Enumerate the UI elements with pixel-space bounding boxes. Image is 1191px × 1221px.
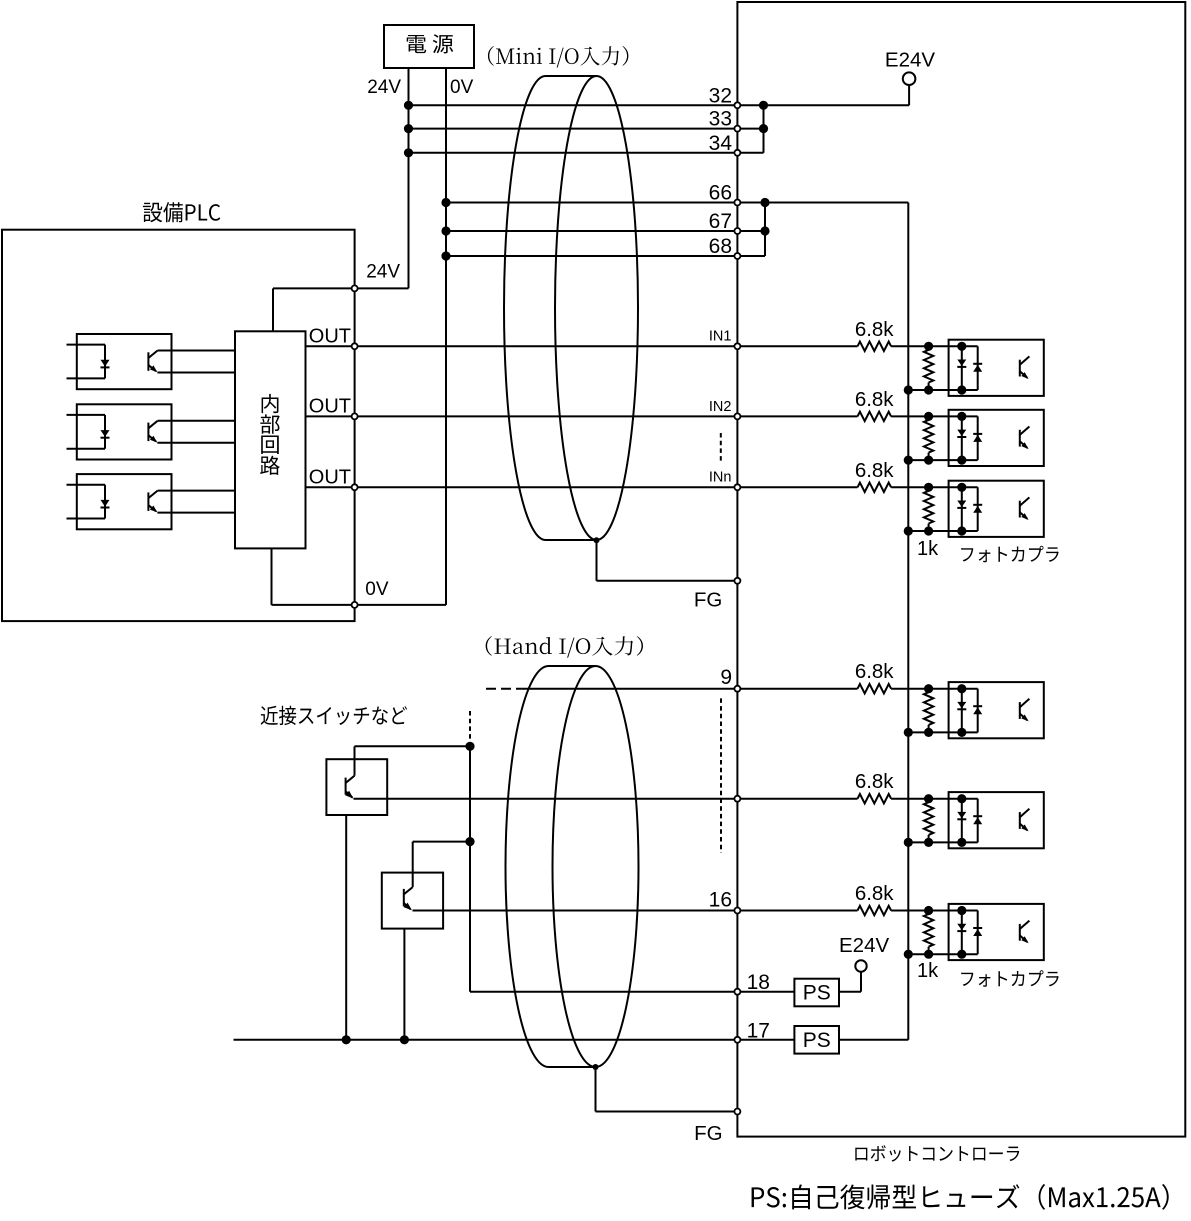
svg-text:16: 16	[709, 889, 732, 912]
photocoupler phototransistor	[1019, 430, 1021, 447]
photocoupler LED pair inner wiring	[962, 910, 978, 912]
Hand I/O cable bundle ellipse	[506, 666, 549, 1067]
junction dots on 0V lead	[441, 198, 450, 207]
wire tie bus pins 66-68	[764, 203, 766, 257]
PLC optocoupler 3 emitter wire	[157, 512, 235, 514]
PLC optocoupler 3 collector wire	[158, 490, 235, 492]
proximity sensor 1 box	[326, 759, 387, 815]
PLC optocoupler 3 transistor	[147, 492, 149, 511]
wire OUT2 row to controller IN	[306, 415, 858, 417]
svg-text:E24V: E24V	[839, 934, 889, 957]
proximity sensor 2 box	[382, 873, 443, 929]
photocoupler LED terminal dots	[957, 483, 966, 492]
wire PS1 to E24V terminal	[839, 991, 861, 993]
pins 9 sensor 16 on controller	[734, 686, 740, 692]
wire row 9	[522, 688, 858, 690]
photocoupler LED pair inner wiring	[962, 345, 978, 347]
svg-text:OUT: OUT	[309, 467, 351, 489]
pin 0V on PLC	[352, 602, 358, 608]
svg-text:6.8k: 6.8k	[855, 882, 894, 905]
svg-text:6.8k: 6.8k	[855, 660, 894, 683]
wire pin 68 row	[446, 255, 765, 257]
label photocoupler hand	[961, 970, 1058, 987]
proximity sensor 2 transistor	[403, 889, 405, 907]
wire FG hand	[595, 1067, 597, 1112]
junction dots 1k resistor	[924, 906, 933, 915]
wire E24V rail to LED return	[908, 953, 962, 955]
wire row 18 to pin	[470, 991, 737, 993]
proximity sensor 1 transistor	[345, 778, 347, 795]
svg-text:34: 34	[709, 132, 733, 155]
wire pin 34 row	[409, 152, 764, 154]
wire row sensor1 output	[354, 798, 858, 800]
PLC optocoupler 2 collector wire	[158, 420, 235, 422]
photocoupler LED diode (down)	[957, 702, 966, 709]
label proximity switches	[261, 706, 407, 725]
photocoupler phototransistor	[1019, 501, 1021, 518]
photocoupler box	[949, 410, 1044, 466]
junction dots tie bus 66-68	[760, 198, 769, 207]
wire resistor to photocoupler	[891, 415, 962, 417]
photocoupler LED terminal dots	[957, 906, 966, 915]
pin 24V on PLC	[352, 285, 358, 291]
photocoupler box	[949, 682, 1044, 738]
label Mini I/O input	[488, 46, 628, 68]
PS fuse 1 box	[794, 979, 839, 1007]
junction dots tie bus 32-34	[759, 101, 768, 110]
svg-text:INn: INn	[709, 470, 732, 486]
wire E24V vertical bus	[907, 203, 909, 1040]
svg-text:PS: PS	[803, 1029, 831, 1052]
svg-text:OUT: OUT	[309, 326, 351, 348]
svg-text:6.8k: 6.8k	[855, 770, 894, 793]
pin OUT3 on PLC	[352, 484, 358, 490]
Mini I/O cable bundle ellipse	[504, 76, 546, 540]
resistor 6.8k	[858, 412, 892, 421]
photocoupler LED pair inner wiring	[962, 415, 978, 417]
svg-text:1k: 1k	[917, 538, 939, 560]
PLC optocoupler 2 box	[77, 404, 172, 459]
terminal E24V top	[908, 85, 910, 105]
photocoupler phototransistor	[1019, 360, 1021, 377]
photocoupler LED diode (up)	[973, 363, 982, 365]
resistor 6.8k	[858, 794, 892, 803]
resistor 1k pull-up	[928, 689, 930, 693]
photocoupler LED pair inner wiring	[962, 688, 978, 690]
resistor 1k pull-up	[928, 487, 930, 491]
svg-text:PS: PS	[803, 982, 831, 1005]
junction dot sensor bus 2	[465, 837, 474, 846]
PLC optocoupler 3 box	[77, 474, 172, 529]
wire row 17 common return	[234, 1039, 738, 1041]
PLC optocoupler 2 emitter wire	[157, 442, 235, 444]
PLC optocoupler 2 input stubs	[67, 414, 106, 416]
wire resistor to photocoupler	[891, 688, 962, 690]
svg-text:66: 66	[709, 182, 732, 205]
photocoupler LED pair inner wiring	[962, 486, 978, 488]
photocoupler LED terminal dots	[957, 342, 966, 351]
photocoupler box	[949, 340, 1044, 396]
proximity sensor 2 collector wire	[412, 842, 414, 888]
Hand cable shield dot	[593, 1064, 599, 1070]
pins 18 17 on controller	[734, 989, 740, 995]
proximity sensor 1 ground wire	[345, 815, 347, 1040]
PLC optocoupler 1 collector wire	[158, 350, 235, 352]
resistor 1k pull-up	[928, 346, 930, 350]
photocoupler LED diode (down)	[957, 430, 966, 437]
PLC optocoupler 2 transistor	[147, 423, 149, 442]
wire PS2 to E24V bus	[839, 1039, 908, 1041]
photocoupler LED diode (up)	[973, 927, 982, 929]
svg-text:IN2: IN2	[709, 399, 732, 415]
wire 24V lead from power supply	[408, 68, 410, 288]
wire 0V from internal circuit	[271, 548, 273, 605]
junction dots 1k resistor	[924, 342, 933, 351]
wire row 16	[413, 910, 858, 912]
PLC optocoupler 1 LED	[104, 345, 106, 379]
junction dots 1k resistor	[924, 412, 933, 421]
resistor 6.8k	[858, 684, 892, 693]
sensor supply bus dashed continuation	[469, 711, 471, 740]
PLC optocoupler 2 LED	[104, 415, 106, 449]
power supply box DENGEN	[384, 25, 474, 68]
svg-text:IN1: IN1	[709, 329, 732, 345]
photocoupler LED diode (down)	[957, 360, 966, 367]
wire resistor to photocoupler	[891, 910, 962, 912]
wire 24V into internal circuit	[273, 287, 355, 289]
wire pin 67 row	[446, 230, 765, 232]
junction dot sensor bus 1	[465, 742, 474, 751]
Mini cable shield dot	[594, 537, 600, 543]
photocoupler box	[949, 904, 1044, 960]
note PS self-resetting fuse	[752, 1184, 1169, 1210]
wire pin 33 row	[409, 128, 764, 130]
svg-text:OUT: OUT	[309, 396, 351, 418]
wire E24V rail to LED return	[908, 459, 962, 461]
photocoupler LED terminal dots	[957, 412, 966, 421]
PLC optocoupler 3 LED	[104, 485, 106, 519]
wire OUT1 row to controller IN	[306, 345, 858, 347]
wire 24V pin to power lead	[355, 287, 409, 289]
PLC optocoupler 3 input stubs	[67, 484, 106, 486]
svg-text:FG: FG	[694, 1122, 722, 1145]
photocoupler LED diode (up)	[973, 705, 982, 707]
pins IN1 IN2 INn FG on controller	[734, 343, 740, 349]
svg-text:33: 33	[709, 108, 732, 131]
pins 32-34 66-68 on controller	[734, 102, 740, 108]
pin OUT1 on PLC	[352, 343, 358, 349]
photocoupler box	[949, 481, 1044, 537]
svg-text:24V: 24V	[366, 261, 400, 282]
resistor 6.8k	[858, 906, 892, 915]
photocoupler LED terminal dots	[957, 684, 966, 693]
photocoupler phototransistor	[1019, 702, 1021, 719]
PLC optocoupler 1 emitter wire	[157, 372, 235, 374]
photocoupler LED diode (down)	[957, 812, 966, 819]
equipment PLC box	[2, 230, 355, 621]
photocoupler LED pair inner wiring	[962, 798, 978, 800]
photocoupler LED diode (down)	[957, 501, 966, 508]
svg-text:FG: FG	[694, 589, 722, 612]
photocoupler LED diode (up)	[973, 433, 982, 435]
wire 0V lead from power supply	[445, 68, 447, 605]
PS fuse 2 box	[794, 1026, 839, 1054]
resistor 1k pull-up	[928, 911, 930, 915]
label NAIBU KAIRO vertical	[262, 394, 279, 413]
label SETSUBI PLC	[143, 202, 220, 222]
resistor 1k pull-up	[928, 416, 930, 420]
proximity sensor 1 collector wire	[354, 746, 356, 775]
svg-text:0V: 0V	[450, 77, 474, 98]
PLC optocoupler 1 box	[77, 334, 172, 389]
PLC optocoupler 1 transistor	[147, 352, 149, 371]
svg-text:0V: 0V	[365, 579, 389, 600]
robot controller box	[737, 2, 1185, 1137]
photocoupler phototransistor	[1019, 812, 1021, 829]
photocoupler LED diode (down)	[957, 924, 966, 931]
junction dots 1k resistor	[924, 684, 933, 693]
wire tie bus pins 32-34	[763, 105, 765, 153]
junction dots 1k resistor	[924, 794, 933, 803]
label DENGEN	[407, 34, 454, 53]
junction dots on 24V lead	[404, 101, 413, 110]
wire E24V rail to LED return	[908, 841, 962, 843]
svg-text:68: 68	[709, 235, 732, 258]
label robot controller	[855, 1145, 1019, 1162]
svg-text:6.8k: 6.8k	[855, 318, 894, 341]
photocoupler LED terminal dots	[957, 794, 966, 803]
photocoupler LED diode (up)	[973, 504, 982, 506]
resistor 1k pull-up	[928, 799, 930, 803]
resistor 6.8k	[858, 342, 892, 351]
wire resistor to photocoupler	[891, 486, 962, 488]
wire pin 17 to PS fuse 2	[737, 1039, 794, 1041]
junction dot sensor1 ground	[342, 1035, 351, 1044]
svg-text:E24V: E24V	[885, 49, 935, 72]
wire pin 66 row / E24V bus feed	[446, 202, 908, 204]
photocoupler LED diode (up)	[973, 815, 982, 817]
svg-text:9: 9	[720, 666, 732, 689]
junction dots 1k resistor	[924, 483, 933, 492]
PLC optocoupler 1 input stubs	[67, 344, 106, 346]
proximity sensor 2 ground wire	[403, 929, 405, 1040]
wire E24V rail to LED return	[908, 389, 962, 391]
svg-text:32: 32	[709, 84, 732, 107]
wire E24V rail to LED return	[908, 530, 962, 532]
dashed continuation IN2-INn	[720, 433, 722, 462]
internal circuit box NAIBUKAIRO	[235, 331, 306, 548]
wire 0V pin to power lead	[355, 604, 446, 606]
svg-text:6.8k: 6.8k	[855, 459, 894, 482]
wire pin 32 row / E24V feed	[409, 104, 910, 106]
wire E24V rail to LED return	[908, 731, 962, 733]
pin FG hand	[734, 1109, 740, 1115]
svg-text:6.8k: 6.8k	[855, 388, 894, 411]
svg-text:24V: 24V	[367, 77, 401, 98]
svg-text:1k: 1k	[917, 960, 939, 982]
resistor 6.8k	[858, 483, 892, 492]
wire OUT3 row to controller IN	[306, 486, 858, 488]
photocoupler box	[949, 792, 1044, 848]
wire pin 18 to PS fuse 1	[737, 991, 794, 993]
wire row 9 dashed stub	[486, 688, 522, 690]
sensor supply bus vertical	[469, 746, 471, 991]
photocoupler phototransistor	[1019, 924, 1021, 941]
wire resistor to photocoupler	[891, 798, 962, 800]
wire FG mini	[596, 540, 598, 581]
wire resistor to photocoupler	[891, 345, 962, 347]
junction dot sensor2 ground	[400, 1035, 409, 1044]
label photocoupler mini	[961, 546, 1058, 563]
pin FG mini	[734, 578, 740, 584]
terminal E24V bottom	[855, 960, 866, 971]
pin OUT2 on PLC	[352, 413, 358, 419]
label Hand I/O input	[486, 636, 643, 658]
svg-text:67: 67	[709, 210, 732, 233]
dashed continuation inside controller hand	[720, 698, 722, 852]
